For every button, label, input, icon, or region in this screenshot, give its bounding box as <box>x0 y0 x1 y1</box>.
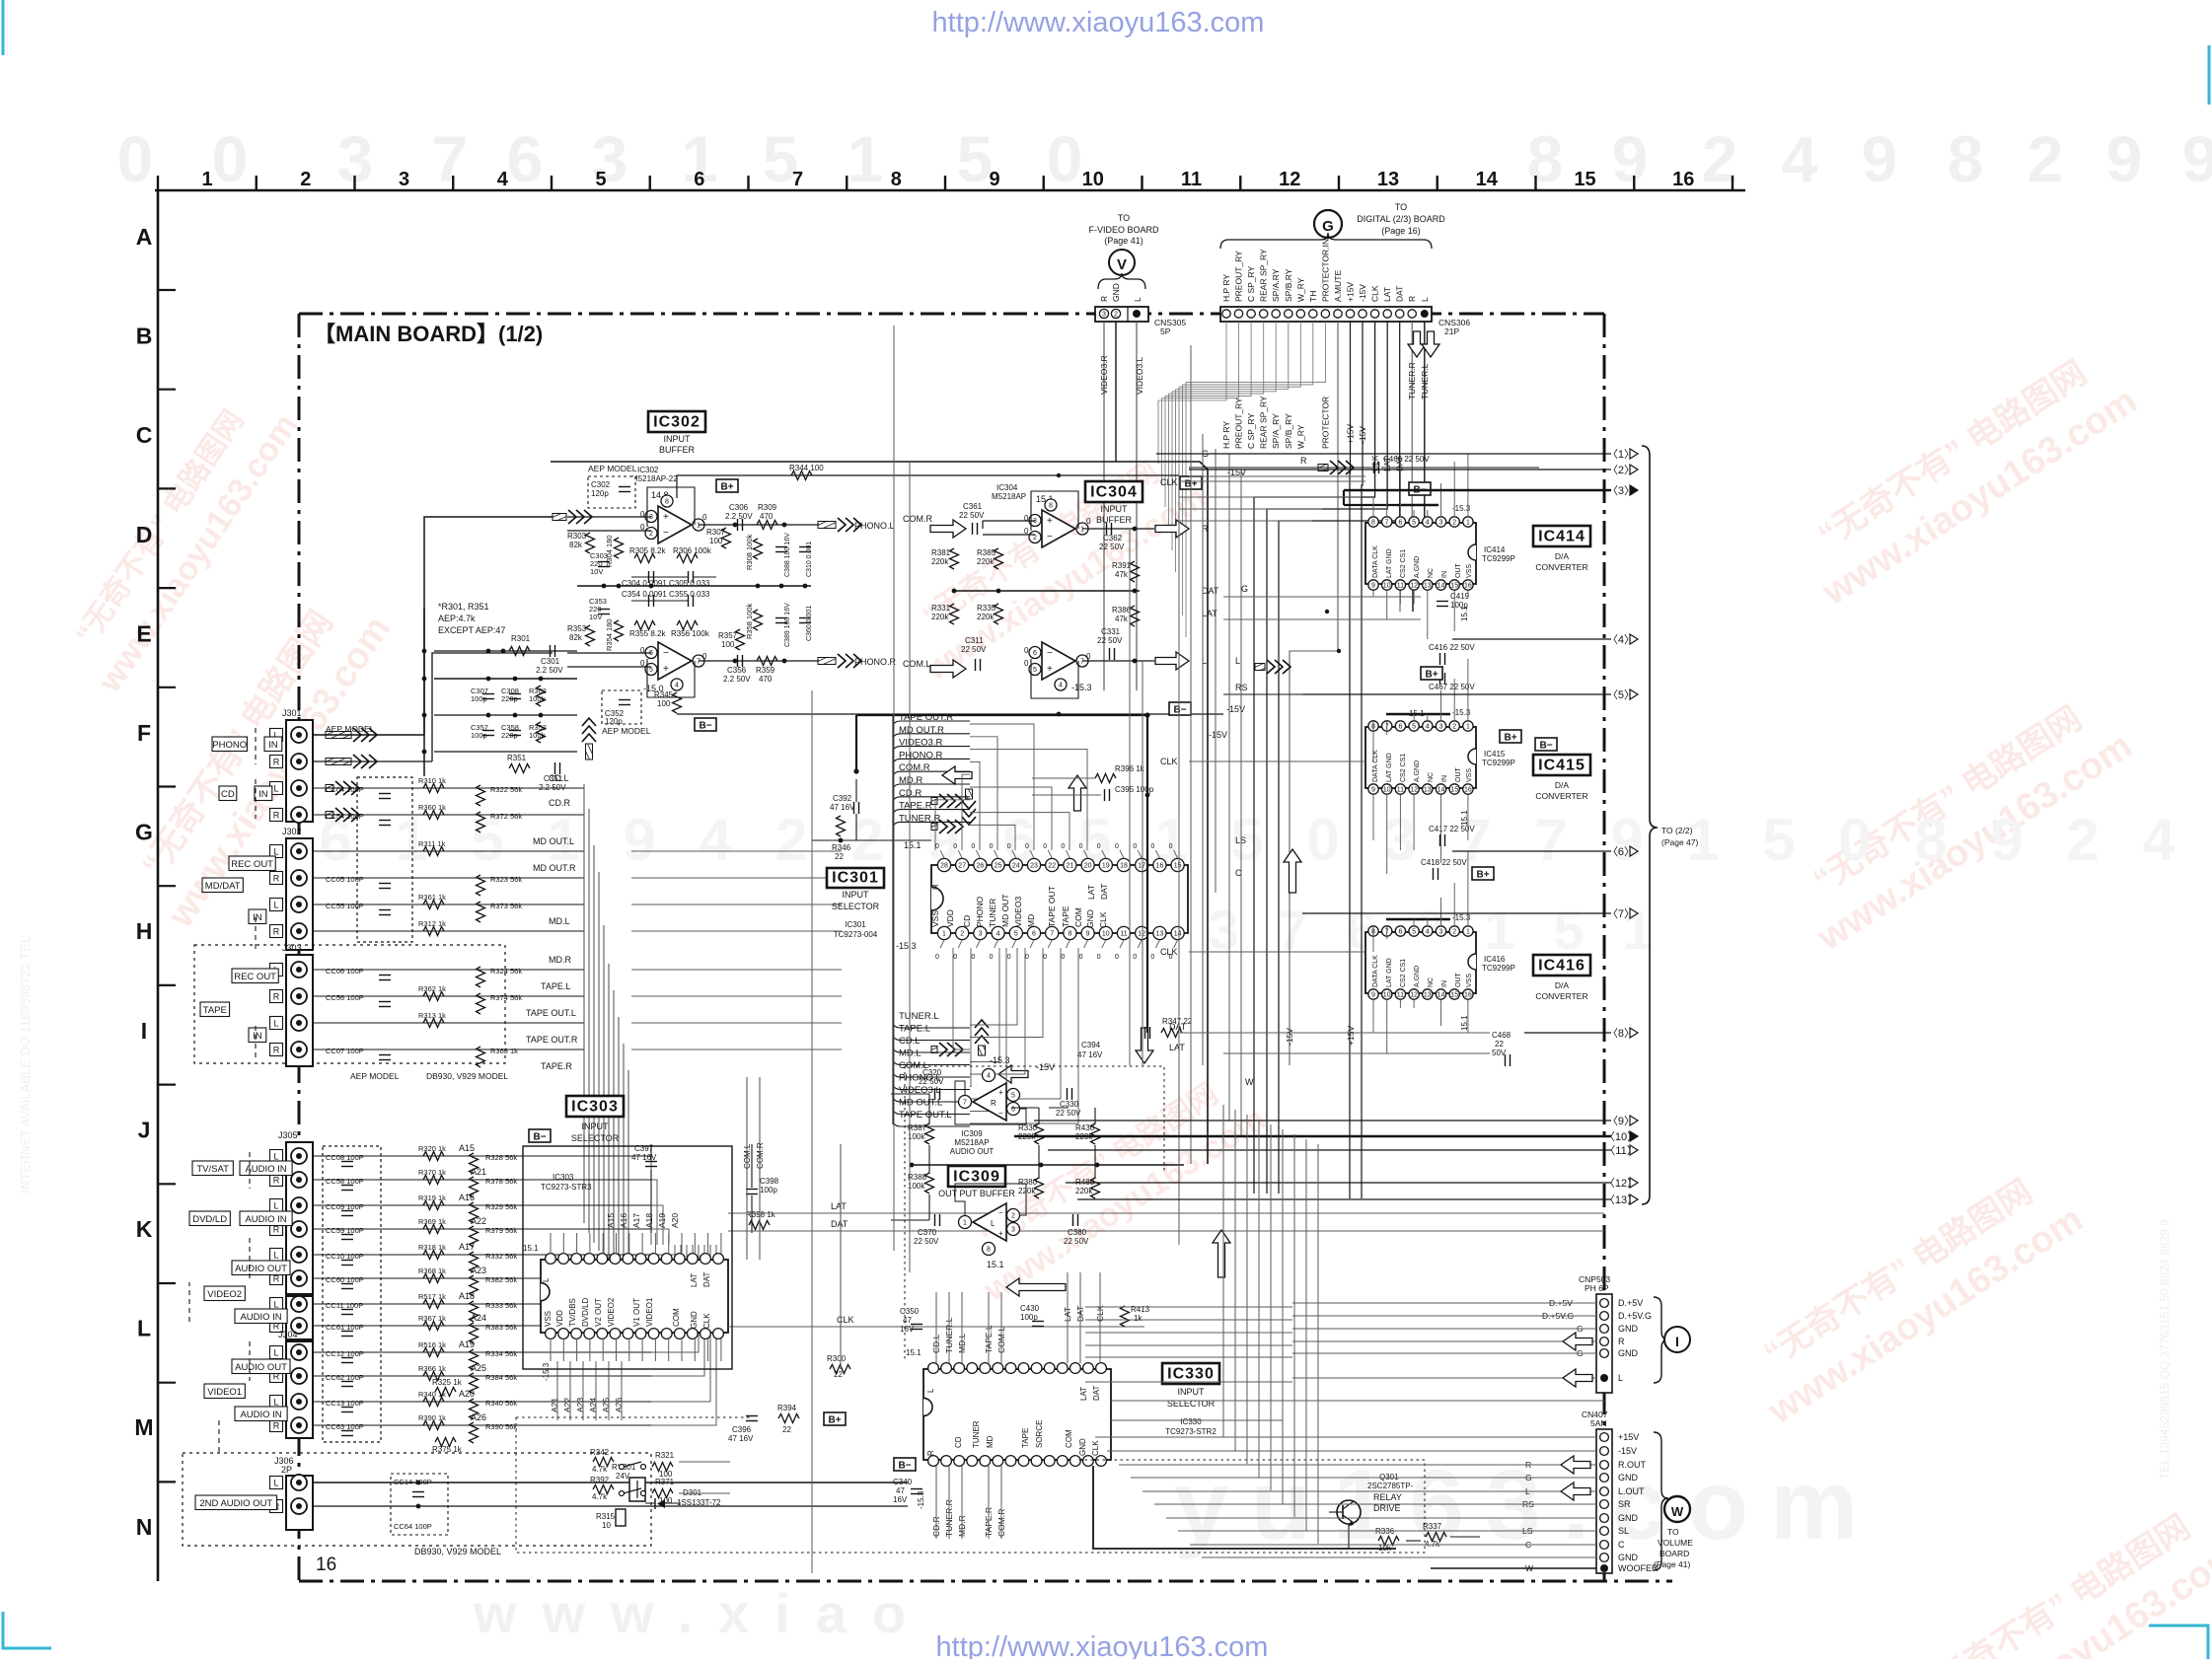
svg-text:TH: TH <box>1308 291 1318 302</box>
capacitor C392 <box>853 802 855 814</box>
wire IC303 box <box>523 1146 732 1369</box>
svg-text:TAPE OUT.R: TAPE OUT.R <box>526 1035 578 1045</box>
svg-text:R516 1k: R516 1k <box>418 1340 446 1349</box>
svg-text:5: 5 <box>1033 667 1037 674</box>
svg-text:4: 4 <box>1426 724 1430 731</box>
svg-text:24V: 24V <box>616 1472 630 1481</box>
svg-text:C416 22 50V: C416 22 50V <box>1429 643 1475 652</box>
svg-text:VSS: VSS <box>1466 768 1473 782</box>
svg-text:R335: R335 <box>977 604 996 613</box>
svg-text:1: 1 <box>848 122 884 195</box>
svg-text:R385: R385 <box>977 548 996 557</box>
svg-text:C370: C370 <box>918 1228 937 1237</box>
svg-text:5: 5 <box>1412 929 1416 936</box>
svg-text:-15V: -15V <box>1209 730 1227 740</box>
svg-text:47 16V: 47 16V <box>830 803 855 812</box>
capacitor C395 <box>1104 789 1106 801</box>
wire row MD OUT.L <box>313 850 584 852</box>
svg-text:A24: A24 <box>471 1313 486 1323</box>
svg-text:TUNER.R: TUNER.R <box>1407 362 1417 399</box>
svg-text:2: 2 <box>1452 520 1456 527</box>
label B- dac1 <box>1409 482 1431 495</box>
svg-text:D: D <box>136 522 153 547</box>
svg-text:B−: B− <box>533 1132 546 1143</box>
wire R301 rail <box>434 650 577 652</box>
wire CLK from CNS306 <box>1254 322 1375 1194</box>
svg-text:0: 0 <box>1097 954 1101 961</box>
svg-text:C389 100 16V: C389 100 16V <box>784 603 791 647</box>
svg-text:PREOUT_RY: PREOUT_RY <box>1234 251 1244 302</box>
capacitor C388 <box>775 546 787 548</box>
svg-text:L: L <box>273 901 278 910</box>
svg-text:0: 0 <box>212 122 249 195</box>
svg-text:IN: IN <box>1441 571 1448 578</box>
svg-text:J302: J302 <box>282 827 302 836</box>
svg-text:100: 100 <box>721 640 735 649</box>
ic IC415 label <box>1533 755 1590 775</box>
node output 3 <box>1344 489 1611 492</box>
svg-text:AEP MODEL: AEP MODEL <box>602 726 651 736</box>
ic IC330 label <box>1162 1363 1219 1384</box>
svg-text:AUDIO OUT: AUDIO OUT <box>950 1147 995 1156</box>
svg-text:TUNER: TUNER <box>988 899 997 927</box>
svg-text:14: 14 <box>1438 992 1445 999</box>
svg-text:INTERNET AVAILABLE DO 1189598: INTERNET AVAILABLE DO 1189598722 TEL <box>18 936 33 1194</box>
svg-text:INPUT: INPUT <box>843 890 870 900</box>
op-amp IC302 B <box>658 642 692 680</box>
capacitor C311 <box>975 659 977 671</box>
svg-text:AEP MODEL: AEP MODEL <box>588 464 637 473</box>
wire -15V dac mid <box>1223 693 1327 695</box>
svg-text:0: 0 <box>702 513 707 522</box>
capacitor C370 <box>934 1214 936 1226</box>
dotted AEP column J301-J303 <box>357 777 412 942</box>
svg-text:MD.R: MD.R <box>549 955 571 965</box>
svg-text:A18: A18 <box>459 1291 475 1301</box>
arrow R dac <box>1318 461 1354 474</box>
svg-text:M5218AP-22: M5218AP-22 <box>631 474 678 483</box>
svg-text:21: 21 <box>1067 863 1074 870</box>
svg-text:VIDEO3.R: VIDEO3.R <box>1099 355 1109 395</box>
op-amp IC304 B <box>1042 642 1075 680</box>
svg-text:C398: C398 <box>760 1177 779 1186</box>
capacitor C419 <box>1437 601 1448 603</box>
svg-text:-15V: -15V <box>1358 284 1367 302</box>
svg-text:10: 10 <box>1383 787 1391 794</box>
svg-text:C: C <box>1618 1540 1625 1550</box>
svg-text:SR: SR <box>1618 1499 1631 1509</box>
wire rows to IC301 zone <box>631 850 842 852</box>
svg-text:IC416: IC416 <box>1538 958 1585 975</box>
svg-text:8: 8 <box>1948 122 1984 195</box>
svg-text:CC10 100P: CC10 100P <box>326 1252 364 1261</box>
svg-text:LAT GND: LAT GND <box>1386 958 1393 987</box>
wire -15V right top <box>1189 469 1604 470</box>
label B+ right <box>1180 476 1202 489</box>
svg-text:16V: 16V <box>893 1495 908 1504</box>
label B- IC330 <box>894 1458 916 1471</box>
arrow TUNER.L down <box>1422 331 1439 357</box>
svg-text:9: 9 <box>1990 807 2023 873</box>
svg-text:4: 4 <box>497 169 509 190</box>
svg-text:220k: 220k <box>1018 1187 1036 1195</box>
svg-text:0: 0 <box>1306 807 1339 873</box>
node output 5 <box>1302 693 1611 695</box>
svg-text:15.1: 15.1 <box>904 840 922 850</box>
wire phono L vertical <box>424 517 553 735</box>
svg-text:OUT: OUT <box>1455 563 1462 579</box>
dotted region 2ND AUDIO OUT <box>183 1453 651 1546</box>
svg-text:8: 8 <box>891 169 902 190</box>
svg-text:B−: B− <box>1539 741 1552 752</box>
svg-text:14: 14 <box>1476 169 1499 190</box>
arrow CD.R hatched <box>931 794 963 808</box>
svg-text:A.GND: A.GND <box>1414 966 1421 987</box>
svg-text:2: 2 <box>1033 535 1037 542</box>
dashed guide left lower <box>157 1154 159 1184</box>
svg-text:A21: A21 <box>471 1167 486 1177</box>
svg-text:TAPE.R: TAPE.R <box>899 801 932 812</box>
svg-text:V1 OUT: V1 OUT <box>632 1298 641 1327</box>
resistor R398 1k <box>749 1221 770 1230</box>
svg-text:0: 0 <box>971 954 975 961</box>
svg-text:CD.L: CD.L <box>549 773 569 783</box>
svg-text:9: 9 <box>2106 122 2143 195</box>
svg-text:B: B <box>136 324 153 349</box>
svg-text:0: 0 <box>1086 652 1091 661</box>
svg-text:16: 16 <box>1464 787 1472 794</box>
svg-text:11: 11 <box>1120 931 1127 938</box>
wire row TAPE extra <box>313 734 424 736</box>
svg-text:R: R <box>1618 1337 1625 1346</box>
label CD IN <box>219 786 237 801</box>
svg-text:C356: C356 <box>727 666 747 675</box>
svg-text:15.1: 15.1 <box>1409 709 1425 718</box>
svg-text:OUT: OUT <box>1455 973 1462 988</box>
svg-text:0: 0 <box>990 843 994 850</box>
arrow cd jack L <box>326 781 359 795</box>
svg-text:15: 15 <box>1450 992 1458 999</box>
svg-text:R300: R300 <box>827 1354 847 1363</box>
wire com.r to pin3 <box>983 520 1035 522</box>
wire row A20 <box>313 1401 446 1403</box>
svg-text:A26: A26 <box>471 1412 486 1422</box>
svg-text:12: 12 <box>1410 992 1418 999</box>
svg-text:R398 1k: R398 1k <box>746 1210 776 1219</box>
svg-text:V2 OUT: V2 OUT <box>594 1298 603 1327</box>
svg-text:R303: R303 <box>567 532 587 541</box>
label VIDEO1 <box>204 1384 245 1399</box>
label B- dac2 <box>1535 738 1557 751</box>
svg-text:0: 0 <box>1838 807 1871 873</box>
svg-text:−: − <box>998 1208 1003 1217</box>
capacitor C362 <box>1106 523 1108 535</box>
svg-text:R430: R430 <box>1075 1123 1095 1132</box>
svg-text:B+: B+ <box>1476 870 1489 881</box>
svg-text:R: R <box>1099 296 1109 302</box>
svg-text:4: 4 <box>1426 929 1430 936</box>
svg-text:PHONO: PHONO <box>975 896 985 927</box>
arrow TUNER.R hatched <box>931 820 963 833</box>
svg-text:C468: C468 <box>1492 1031 1512 1040</box>
wire feedback loop IC309B <box>955 1184 1026 1215</box>
svg-text:R383 56k: R383 56k <box>485 1323 517 1332</box>
svg-text:INPUT: INPUT <box>1101 504 1129 514</box>
svg-text:NC: NC <box>1428 977 1435 987</box>
svg-text:G: G <box>1322 218 1334 235</box>
svg-text:6: 6 <box>1032 931 1036 938</box>
svg-text:TAPE.L: TAPE.L <box>899 1024 930 1035</box>
wire vertical video3 bus <box>893 326 895 1251</box>
resistor R355 8.2k <box>634 621 655 630</box>
capacitor C380 <box>1072 1214 1074 1226</box>
dotted region IC309 IC330 <box>905 1066 1164 1174</box>
svg-text:TO: TO <box>1667 1527 1679 1537</box>
wire IC301 outputs rise <box>970 948 1017 1025</box>
svg-text:http://www.xiaoyu163.com: http://www.xiaoyu163.com <box>932 7 1265 38</box>
wire bank rails <box>434 678 577 680</box>
capacitor C306 <box>737 519 739 531</box>
wire CLK IC303 <box>728 1326 1144 1328</box>
svg-text:LAT: LAT <box>831 1201 847 1211</box>
resistor R381 220k <box>950 548 959 569</box>
svg-text:IC302: IC302 <box>637 466 659 474</box>
svg-text:SP/B.RY: SP/B.RY <box>1284 268 1293 302</box>
wire row MD.R2 <box>313 995 584 997</box>
wire TUNER.L <box>1413 322 1425 612</box>
svg-text:CC61 100P: CC61 100P <box>326 1323 364 1332</box>
svg-text:A16: A16 <box>459 1193 475 1202</box>
wire vertical x905 hooks <box>892 715 894 1124</box>
svg-text:OUT PUT BUFFER: OUT PUT BUFFER <box>938 1189 1015 1198</box>
svg-text:7: 7 <box>697 659 700 666</box>
svg-text:2: 2 <box>649 531 653 538</box>
svg-text:F-VIDEO BOARD: F-VIDEO BOARD <box>1088 225 1159 235</box>
svg-text:10: 10 <box>602 1521 611 1530</box>
svg-text:H.P RY: H.P RY <box>1221 421 1231 449</box>
svg-text:C SP_RY: C SP_RY <box>1246 265 1256 302</box>
svg-text:DVD/LD: DVD/LD <box>581 1297 590 1327</box>
wire bottom bus to CN407 <box>1095 1436 1322 1438</box>
arrow down white IC301 <box>1136 1028 1153 1063</box>
resistor R391 47k <box>1131 561 1140 582</box>
svg-text:6: 6 <box>1398 520 1402 527</box>
svg-text:A17: A17 <box>631 1213 641 1228</box>
resistor R346 22 <box>837 816 846 836</box>
svg-text:0: 0 <box>1061 954 1065 961</box>
svg-text:15.1: 15.1 <box>906 1348 922 1357</box>
resistor R396 1k <box>1095 774 1116 783</box>
svg-text:R368 1k: R368 1k <box>418 1266 446 1275</box>
svg-text:L: L <box>991 1219 995 1228</box>
svg-text:+: + <box>998 1088 1003 1097</box>
wire IC309 rails <box>928 1094 930 1124</box>
wire VIDEO3.R <box>1103 322 1105 690</box>
svg-text:-15V: -15V <box>1036 1062 1055 1072</box>
wire long horizontals to connectors <box>1085 1306 1292 1308</box>
arrow TUNER.R down <box>1408 331 1426 357</box>
resistor R330 220k <box>1035 1123 1044 1144</box>
label MD/DAT <box>202 878 243 893</box>
svg-text:9: 9 <box>1862 122 1898 195</box>
svg-text:SELECTOR: SELECTOR <box>571 1133 620 1143</box>
wire mid rail IC304 <box>954 590 1140 592</box>
svg-text:R362 1k: R362 1k <box>418 984 446 993</box>
svg-text:IN: IN <box>1441 980 1448 987</box>
svg-text:1: 1 <box>201 169 212 190</box>
wire IC303 top stubs <box>550 1233 552 1254</box>
svg-text:4: 4 <box>699 807 732 873</box>
wire IC303 bottom stubs <box>550 1338 552 1361</box>
svg-text:23: 23 <box>1030 863 1038 870</box>
resistor R388 100k <box>925 1173 934 1194</box>
svg-text:I: I <box>141 1018 147 1044</box>
wire phono R vertical <box>432 653 553 761</box>
wire -15V from CNS306 <box>1362 322 1363 1198</box>
svg-text:L: L <box>1618 1373 1623 1383</box>
wire vertical bus x592 <box>583 784 585 1223</box>
svg-text:6: 6 <box>694 169 704 190</box>
ic IC416 label <box>1533 955 1590 976</box>
label IN J302 <box>249 909 266 924</box>
svg-text:0: 0 <box>1024 514 1029 523</box>
svg-text:IC309: IC309 <box>953 1169 1000 1186</box>
svg-text:3: 3 <box>1439 724 1443 731</box>
svg-text:R390 1k: R390 1k <box>418 1413 446 1422</box>
resistor R307 100 <box>722 528 731 548</box>
svg-text:8: 8 <box>1049 503 1053 510</box>
svg-text:0: 0 <box>1133 843 1137 850</box>
capacitor C302 AEP <box>588 476 635 508</box>
wire bundle CNS306 relay lines <box>1158 322 1226 400</box>
svg-text:R: R <box>273 1046 280 1055</box>
svg-text:−: − <box>1047 532 1053 543</box>
svg-text:C331: C331 <box>1101 627 1121 636</box>
svg-text:7: 7 <box>1050 931 1054 938</box>
svg-text:1: 1 <box>1466 724 1470 731</box>
svg-text:R367 1k: R367 1k <box>418 1314 446 1323</box>
svg-text:W_RY: W_RY <box>1295 424 1305 449</box>
ic IC330 chip <box>923 1369 1111 1460</box>
svg-text:100k: 100k <box>529 694 546 703</box>
svg-text:IC414: IC414 <box>1538 529 1585 545</box>
svg-text:12: 12 <box>1279 169 1300 190</box>
svg-text:CC62 100P: CC62 100P <box>326 1373 364 1382</box>
svg-text:L.OUT: L.OUT <box>1618 1486 1645 1496</box>
arrow left big <box>1006 1278 1066 1296</box>
svg-text:DAT: DAT <box>1202 586 1219 596</box>
svg-text:H: H <box>136 918 153 944</box>
arrow L out <box>1155 652 1189 670</box>
capacitor C397 <box>645 1161 657 1163</box>
main board border top <box>299 313 1604 316</box>
svg-text:LAT: LAT <box>1086 885 1096 900</box>
svg-text:15.1: 15.1 <box>523 1244 539 1253</box>
svg-text:B−: B− <box>1173 705 1186 716</box>
wire IC302A out <box>699 524 819 526</box>
svg-text:DATA CLK: DATA CLK <box>1372 545 1379 578</box>
svg-text:0: 0 <box>1133 954 1137 961</box>
svg-text:INPUT: INPUT <box>1178 1387 1206 1397</box>
svg-text:A20: A20 <box>459 1389 475 1399</box>
svg-text:GND: GND <box>1111 283 1121 302</box>
label 2ND AUDIO OUT <box>195 1495 277 1510</box>
svg-text:0: 0 <box>1115 843 1119 850</box>
resistor R413 1k <box>1121 1306 1130 1327</box>
node output 7 <box>1302 912 1611 914</box>
svg-text:0: 0 <box>953 843 957 850</box>
svg-text:11: 11 <box>1397 583 1404 590</box>
svg-text:A18: A18 <box>644 1213 654 1228</box>
svg-text:22: 22 <box>834 1370 843 1379</box>
svg-text:27: 27 <box>958 863 966 870</box>
svg-text:CC11 100P: CC11 100P <box>326 1301 363 1310</box>
svg-text:http://www.xiaoyu163.com: http://www.xiaoyu163.com <box>936 1631 1269 1659</box>
svg-text:10V: 10V <box>590 567 603 576</box>
svg-text:22 50V: 22 50V <box>1056 1109 1081 1118</box>
svg-text:TO (2/2): TO (2/2) <box>1661 826 1693 835</box>
svg-text:CC60 100P: CC60 100P <box>326 1275 364 1284</box>
svg-text:CD: CD <box>954 1436 963 1448</box>
svg-text:R322 56k: R322 56k <box>490 785 522 794</box>
arrow R cnp <box>1563 1333 1592 1350</box>
svg-text:16: 16 <box>1464 992 1472 999</box>
svg-text:100: 100 <box>709 537 723 545</box>
label DVD/LD AUDIO IN <box>189 1211 230 1226</box>
wire LAT DAT IC303 <box>728 1212 1604 1214</box>
svg-text:0: 0 <box>640 646 645 655</box>
label IN J303 <box>249 1028 266 1043</box>
wire L out <box>1082 660 1154 662</box>
svg-text:3: 3 <box>1439 520 1443 527</box>
svg-text:R344 100: R344 100 <box>789 464 824 472</box>
label TAPE <box>200 1002 230 1017</box>
svg-text:DAT: DAT <box>1092 1385 1101 1401</box>
wire DAT LAT dac1 <box>1223 596 1421 598</box>
svg-text:VDD: VDD <box>945 909 955 927</box>
svg-text:C396: C396 <box>732 1425 752 1434</box>
node output 13 <box>1077 1198 1611 1200</box>
svg-text:MD/DAT: MD/DAT <box>205 881 241 892</box>
svg-text:NC: NC <box>1428 568 1435 578</box>
wire row A21 <box>313 1179 446 1181</box>
capacitor C304 C305 <box>648 571 650 583</box>
connector CNS305 <box>1095 307 1148 322</box>
arrow up big1 <box>1213 1230 1230 1277</box>
svg-text:WOOFER: WOOFER <box>1618 1563 1659 1573</box>
resistor R394 22 <box>778 1414 799 1423</box>
svg-text:0: 0 <box>1079 954 1083 961</box>
svg-text:-15.3: -15.3 <box>1071 683 1092 692</box>
svg-text:M5218AP: M5218AP <box>992 492 1026 501</box>
capacitor C394 <box>1144 1027 1146 1039</box>
wire clk connections dacs <box>1179 496 1362 498</box>
svg-text:IC303: IC303 <box>553 1173 574 1182</box>
svg-text:2: 2 <box>2028 122 2064 195</box>
svg-text:PHONO.L: PHONO.L <box>854 521 895 531</box>
svg-text:4: 4 <box>2142 807 2175 873</box>
capacitor C361 <box>972 523 974 535</box>
capacitor C416 <box>1439 653 1441 665</box>
svg-text:C430: C430 <box>1020 1304 1040 1313</box>
svg-text:R372 56k: R372 56k <box>490 812 522 821</box>
svg-text:A.MUTE: A.MUTE <box>1333 270 1343 302</box>
node output 6 <box>1452 850 1611 852</box>
resistor R357 100 <box>736 629 745 650</box>
svg-text:−: − <box>663 528 669 539</box>
svg-text:5: 5 <box>1412 724 1416 731</box>
capacitor C354 C355 <box>648 595 650 607</box>
